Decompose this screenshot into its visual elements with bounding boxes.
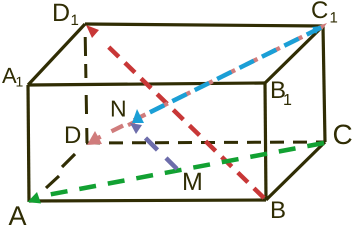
svg-text:1: 1 <box>330 10 338 27</box>
wire: hidden edge D-D1 (dashed) <box>85 24 87 143</box>
svg-text:1: 1 <box>71 12 79 29</box>
wire: edge A1-B1 <box>28 83 265 85</box>
pink tip at C1 <box>318 23 327 30</box>
vector green C to A (dashed) <box>42 143 324 196</box>
svg-text:C: C <box>311 0 328 24</box>
wire: edge B1-C1 <box>265 26 323 83</box>
svg-text:N: N <box>110 96 127 122</box>
arrowhead pink at D <box>87 131 102 145</box>
svg-text:A: A <box>9 201 27 225</box>
svg-text:C: C <box>333 119 352 150</box>
wire: edge A-B <box>29 200 266 201</box>
wire: edge D1-C1 <box>85 24 323 26</box>
wire: hidden edge A-D dash 2 <box>62 154 75 167</box>
wire: hidden edge A-D dash 1 <box>46 176 59 188</box>
svg-text:1: 1 <box>283 92 292 109</box>
arrowhead cyan at C1 <box>312 26 321 34</box>
arrowhead cyan at N (points up) <box>132 109 144 123</box>
pink dash left of N <box>128 122 135 125</box>
wire: edge A1-D1 <box>28 24 85 85</box>
vector pink D to C1 (dashed) <box>98 27 322 138</box>
svg-text:D: D <box>64 122 81 149</box>
wire: edge C-C1 <box>323 26 325 142</box>
svg-text:M: M <box>182 168 203 196</box>
vector cyan N to C1 (dashed, over pink) <box>150 27 322 112</box>
vector crimson B to D1 (dashed) <box>106 45 264 198</box>
wire: edge B-B1 <box>265 83 266 200</box>
wire: edge A-A1 <box>28 85 29 202</box>
vector purple N to M dash 2 <box>166 158 177 169</box>
svg-text:D: D <box>52 0 70 27</box>
svg-text:1: 1 <box>16 74 24 90</box>
wire: hidden edge D-C (dashed) <box>86 142 325 143</box>
wire: edge B-C <box>266 142 325 200</box>
arrowhead green at A <box>28 192 42 204</box>
arrowhead purple at N (points down) <box>130 123 142 134</box>
vector purple N to M dash 1 <box>146 138 158 150</box>
arrowhead crimson at D1 <box>86 25 99 38</box>
svg-text:B: B <box>270 197 286 224</box>
